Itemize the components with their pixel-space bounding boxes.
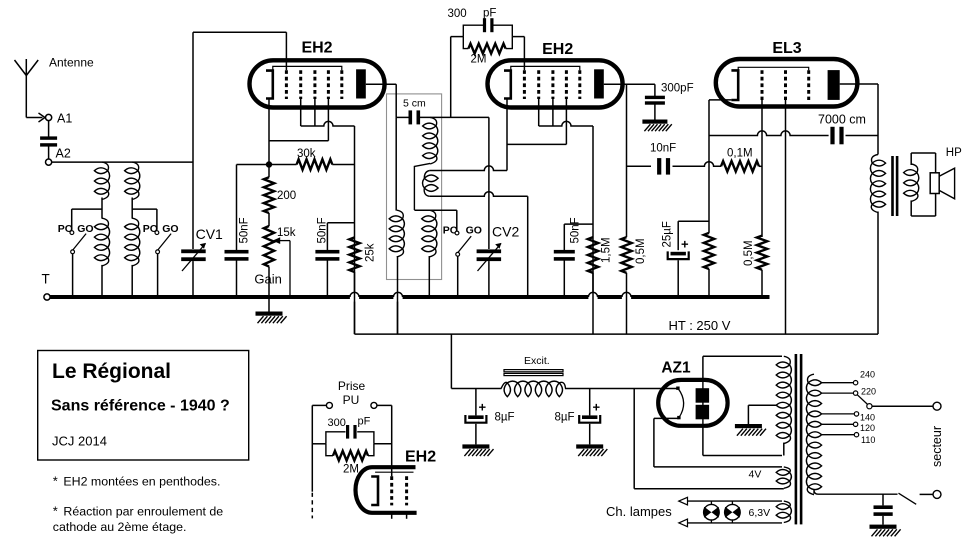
- svg-text:7000 cm: 7000 cm: [818, 112, 866, 126]
- svg-text:CV1: CV1: [196, 226, 223, 242]
- secteur terminal bottom: [933, 490, 941, 498]
- svg-text:EH2 montées en penthodes.: EH2 montées en penthodes.: [63, 475, 220, 489]
- svg-text:120: 120: [860, 423, 875, 433]
- dial lamp 1: [704, 501, 720, 523]
- label 1,5M: [601, 237, 613, 263]
- svg-text:Le Régional: Le Régional: [52, 360, 171, 383]
- capacitor 8uF no1: [465, 389, 486, 445]
- label 25k: [365, 243, 377, 262]
- PU RC right stub: [374, 443, 392, 445]
- 15k wiper arrow: [273, 237, 290, 297]
- svg-text:EH2: EH2: [405, 449, 436, 466]
- chassis ground on bus: [256, 299, 287, 323]
- svg-text:110: 110: [861, 435, 875, 445]
- AZ1 anode link: [702, 380, 704, 426]
- svg-text:50nF: 50nF: [317, 217, 329, 243]
- svg-text:8µF: 8µF: [555, 412, 575, 424]
- field coil Excit.: [501, 381, 565, 397]
- output transformer primary: [870, 155, 885, 213]
- wire grid1 top lead EH2 no1: [285, 32, 287, 70]
- secondary circuit to speaker: [911, 153, 935, 216]
- EH2 no2 grid 2: [537, 70, 540, 99]
- EH2 no2 grid 3: [551, 70, 554, 99]
- terminal T: [44, 294, 50, 300]
- note 2: [53, 504, 224, 519]
- rail drop to filter: [450, 334, 452, 388]
- svg-text:25µF: 25µF: [662, 221, 674, 247]
- svg-text:300pF: 300pF: [661, 83, 694, 95]
- svg-text:Sans référence - 1940 ?: Sans référence - 1940 ?: [51, 398, 230, 415]
- switch3 drop wire: [456, 210, 458, 230]
- label 2M (PU): [343, 464, 359, 476]
- svg-text:6,3V: 6,3V: [749, 507, 771, 519]
- wire coil1-to-coil4 and PO/GO3 tap: [414, 209, 456, 211]
- EL3 grid2 lead to HT rail: [785, 100, 787, 334]
- svg-text:+: +: [479, 400, 487, 415]
- svg-text:Excit.: Excit.: [524, 355, 550, 367]
- title box: [38, 351, 249, 461]
- wire top feedback line: [193, 32, 286, 249]
- label 0,5M no2: [743, 240, 755, 266]
- EH2 no1 screens wire with hop: [301, 121, 355, 126]
- wire selector to secteur terminal: [872, 405, 933, 407]
- power transformer 6,3V winding: [776, 501, 791, 522]
- label pF (top): [483, 8, 496, 20]
- capacitor 5cm: [396, 110, 489, 124]
- EH2 no2 cathode lead: [506, 99, 508, 171]
- EL3 cathode: [731, 70, 738, 100]
- dial lamp 2: [725, 501, 741, 523]
- primary tap 240: [822, 381, 858, 385]
- mains filter capacitor: [874, 494, 893, 524]
- label HT 250V: [669, 318, 731, 333]
- svg-text:A2: A2: [56, 147, 71, 161]
- mains switch wire: [920, 493, 933, 495]
- EH2 no1 grid 4: [327, 70, 330, 99]
- label 50nF no3: [570, 217, 582, 243]
- switch3 PO contact: [455, 231, 459, 235]
- PU coupling capacitor 300pF: [346, 425, 357, 439]
- EH2 no2 grid4 lead to cathode: [507, 99, 566, 144]
- PU left wire dashed: [311, 493, 313, 519]
- capacitor 50nF no1: [225, 165, 249, 298]
- bus hop at 1,5M line: [588, 292, 597, 297]
- svg-text:15k: 15k: [277, 227, 296, 239]
- EH2 no1 internal g5 tie: [273, 66, 342, 70]
- reaction line from 25k below bus: [354, 302, 356, 335]
- resistor 1,5M: [588, 237, 598, 273]
- label AZ1: [661, 360, 691, 377]
- PU terminal left: [326, 402, 332, 408]
- label 8uF no2: [555, 412, 575, 424]
- label 25uF: [662, 221, 674, 247]
- EH2 no1 grid 2: [299, 70, 302, 99]
- svg-text:Antenne: Antenne: [49, 56, 94, 70]
- capacitor 300pF feedback: [483, 18, 494, 32]
- cathode node wire: [237, 164, 297, 166]
- label CV2: [492, 224, 519, 240]
- wire L1 to bus: [101, 265, 103, 297]
- switch1 PO contact: [70, 231, 74, 235]
- label pF (PU): [358, 416, 371, 428]
- label 0,1M: [727, 148, 753, 160]
- svg-text:GO: GO: [77, 223, 93, 235]
- label EH2 no2: [542, 41, 573, 58]
- PU RC loop frame: [326, 432, 374, 456]
- power transformer core: [795, 354, 803, 524]
- resistor 200 cathode: [264, 165, 274, 227]
- power transformer HV winding: [776, 356, 791, 455]
- EH2 no3 internal line: [375, 471, 413, 473]
- resistor 25k: [349, 237, 359, 272]
- HV center tap to ground: [748, 405, 776, 424]
- coil2 bottom lead: [430, 192, 528, 297]
- label 30k: [297, 148, 316, 160]
- series antenna capacitor: [40, 121, 57, 159]
- EL3 cathode exit lead: [709, 100, 731, 136]
- svg-text:50nF: 50nF: [239, 217, 251, 243]
- EH2 no2 cathode: [504, 71, 511, 99]
- resistor 0,5M no1: [621, 237, 631, 273]
- svg-text:*: *: [53, 504, 58, 519]
- EH2 no1 anode wire: [366, 83, 396, 85]
- speaker HP: [930, 168, 954, 199]
- bus hop at reaction coil line: [393, 292, 402, 297]
- label plus 8uF no1: [479, 400, 487, 415]
- label CV1: [196, 226, 223, 242]
- mains switch blade: [899, 493, 917, 504]
- coupling transformer shield box: [387, 94, 442, 280]
- svg-text:1,5M: 1,5M: [601, 237, 613, 263]
- svg-text:0,1M: 0,1M: [727, 148, 753, 160]
- output transformer core: [891, 156, 898, 216]
- label Excit.: [524, 355, 550, 367]
- secteur terminal top: [933, 402, 941, 410]
- box coil top exit jog: [414, 163, 430, 210]
- resistor 2M feedback: [468, 44, 505, 54]
- PU RC left stub: [312, 443, 326, 445]
- label 0,5M no1: [635, 238, 647, 264]
- bus hop at 0,5M line: [622, 292, 631, 297]
- svg-text:Gain: Gain: [254, 272, 281, 287]
- EH2 no1 grid 3: [313, 70, 316, 99]
- RC loop 300pF/2M frame: [463, 25, 512, 48]
- EL3 cathode bias line: [708, 136, 710, 233]
- label PU: [343, 393, 360, 407]
- wire anode RC left leg: [451, 37, 464, 118]
- label Prise: [338, 379, 366, 393]
- PU terminal right: [371, 402, 377, 408]
- label 6,3V: [749, 507, 771, 519]
- wire 50nF no2 to screen line: [327, 222, 354, 224]
- svg-text:T: T: [42, 272, 50, 287]
- variable capacitor CV2: [477, 243, 502, 271]
- label A2: [56, 147, 71, 161]
- screen/1,5M line x593: [592, 126, 594, 292]
- antenna coil L1 primary: [94, 162, 109, 199]
- svg-text:*: *: [53, 474, 58, 489]
- EH2 no1 cathode lead: [268, 99, 270, 165]
- label 300pF: [661, 83, 694, 95]
- svg-text:4V: 4V: [749, 469, 762, 481]
- capacitor 10nF: [627, 158, 671, 175]
- box coil bottom-right wire to bus: [428, 256, 430, 297]
- svg-text:GO: GO: [466, 225, 482, 237]
- svg-text:secteur: secteur: [930, 426, 944, 467]
- Excit core: [504, 370, 563, 376]
- svg-text:300: 300: [448, 8, 467, 20]
- arrowhead bottom: [679, 519, 688, 527]
- label 7000 cm: [818, 112, 866, 126]
- capacitor 50nF no3: [554, 224, 593, 297]
- wire 5cm line down to CV2: [488, 117, 490, 249]
- label plus 8uF no2: [593, 400, 601, 415]
- wire bias resistor to bus: [708, 269, 710, 297]
- terminal A1: [46, 114, 52, 120]
- voltage selector arm: [857, 395, 868, 405]
- svg-text:2M: 2M: [471, 54, 487, 66]
- antenna coil L1 wire to tap: [101, 198, 103, 219]
- label EH2 no1: [301, 40, 332, 57]
- subtitle Sans reference: [51, 398, 230, 415]
- svg-text:140: 140: [860, 413, 875, 423]
- EL3 anode: [828, 70, 840, 100]
- label 200: [277, 190, 296, 202]
- primary tap 220: [822, 391, 858, 395]
- EH2 no1 cathode: [266, 71, 273, 99]
- wire L2 to bus: [131, 265, 133, 297]
- ground below 300pF: [642, 120, 671, 132]
- label T: [42, 272, 50, 287]
- PU left wire: [312, 405, 326, 491]
- ground 8uF no2: [576, 444, 607, 456]
- wire 0,5M no1 to HT rail: [626, 273, 628, 334]
- author JCJ 2014: [52, 434, 107, 449]
- variable capacitor CV1: [181, 243, 206, 271]
- tube EH2 no2 envelope: [488, 60, 623, 107]
- label 8uF no1: [495, 412, 515, 424]
- switch3 pole: [456, 252, 460, 256]
- power transformer primary: [806, 374, 821, 495]
- svg-text:5 cm: 5 cm: [403, 98, 426, 110]
- switch1 pole: [71, 250, 75, 254]
- ground 8uF no1: [462, 444, 493, 456]
- svg-text:PU: PU: [343, 393, 360, 407]
- switch2 pole: [156, 250, 160, 254]
- label Gain: [254, 272, 281, 287]
- wire 10nF to 0,1M: [673, 162, 722, 167]
- anode drop wire into box: [395, 84, 397, 117]
- label 240: [860, 369, 875, 379]
- arrow into A1: [39, 113, 46, 122]
- EH2 no3 grid 1: [390, 476, 393, 505]
- potentiometer 15k Gain: [264, 226, 274, 297]
- switch2 PO contact: [155, 231, 159, 235]
- label Ch. lampes: [606, 504, 672, 519]
- capacitor 25uF: [668, 221, 709, 297]
- svg-text:10nF: 10nF: [650, 143, 676, 155]
- box coil bottom-right (grid coil): [422, 210, 437, 257]
- svg-text:300: 300: [328, 417, 346, 429]
- EH2 no1 grid 5: [340, 70, 343, 99]
- svg-text:AZ1: AZ1: [661, 360, 691, 377]
- resistor 0,1M: [721, 161, 759, 171]
- title Le Regional: [52, 360, 171, 383]
- capacitor 8uF no2: [579, 389, 600, 445]
- AZ1 filament bottom lead: [654, 418, 782, 467]
- tube EL3 envelope: [716, 59, 858, 107]
- svg-text:EH2: EH2: [301, 40, 332, 57]
- switch1 wire to bus: [72, 254, 74, 297]
- svg-text:0,5M: 0,5M: [635, 238, 647, 264]
- antenna coil L2 secondary: [125, 218, 140, 266]
- AZ1 filament return line: [633, 389, 635, 489]
- svg-text:Prise: Prise: [338, 379, 366, 393]
- svg-text:pF: pF: [358, 416, 371, 428]
- ground mains capacitor: [870, 525, 901, 537]
- label 4V: [749, 469, 762, 481]
- antenna coil L2 primary: [125, 162, 140, 199]
- resistor 30k: [297, 159, 333, 169]
- tap wire L1 to PO/GO switch 1: [72, 209, 102, 230]
- label 300 (top): [448, 8, 467, 20]
- label GO switch3: [466, 225, 482, 237]
- svg-text:2M: 2M: [343, 464, 359, 476]
- EL3 internal g3 tie: [738, 67, 809, 70]
- svg-text:pF: pF: [483, 8, 496, 20]
- label 50nF no2: [317, 217, 329, 243]
- svg-text:50nF: 50nF: [570, 217, 582, 243]
- label EH2 no3: [405, 449, 436, 466]
- tap wire L2 to PO/GO switch 2: [132, 209, 157, 230]
- antenna coil L2 wire to tap: [131, 198, 133, 219]
- box coil bottom-left wire to HT rail: [397, 256, 399, 334]
- primary tap 110: [822, 433, 859, 437]
- svg-text:cathode au 2ème étage.: cathode au 2ème étage.: [53, 520, 187, 534]
- switch3 wire to bus: [457, 256, 459, 297]
- switch1 blade: [73, 234, 86, 250]
- EL3 grid 3: [807, 70, 810, 100]
- reaction line from coil below bus: [397, 302, 399, 335]
- label 2M (top): [471, 54, 487, 66]
- primary bottom lead: [814, 490, 898, 494]
- bus hop at 25k line: [350, 292, 359, 297]
- EH2 no2 screen leads: [539, 99, 553, 126]
- lamp line top: [687, 500, 782, 502]
- voltage selector pivot: [867, 404, 872, 409]
- svg-text:0,5M: 0,5M: [743, 240, 755, 266]
- svg-text:200: 200: [277, 190, 296, 202]
- svg-text:JCJ 2014: JCJ 2014: [52, 434, 107, 449]
- EL3 anode wire: [840, 84, 878, 155]
- EH2 no3 cathode: [371, 477, 378, 506]
- svg-text:HP: HP: [946, 147, 962, 159]
- label GO switch1: [77, 223, 93, 235]
- middle coupling coil: [423, 171, 439, 197]
- label secteur: [930, 426, 944, 467]
- label 140: [860, 413, 875, 423]
- svg-text:EH2: EH2: [542, 41, 573, 58]
- resistor 0,5M grid leak: [757, 236, 767, 297]
- PU right wire: [377, 405, 392, 476]
- wire 7000cm to anode line: [846, 135, 879, 137]
- capacitor 7000 cm: [830, 127, 843, 145]
- label 120: [860, 423, 875, 433]
- label 300 (PU): [328, 417, 346, 429]
- label 25uF plus: [681, 237, 689, 252]
- svg-text:A1: A1: [57, 112, 72, 126]
- wire RC right leg to grid EH2 no2: [512, 37, 524, 71]
- svg-text:Réaction par enroulement de: Réaction par enroulement de: [63, 505, 223, 519]
- label 220: [861, 387, 876, 397]
- EH2 no2 grid 1: [523, 70, 526, 99]
- svg-text:Ch. lampes: Ch. lampes: [606, 504, 672, 519]
- switch2 wire to bus: [157, 254, 159, 297]
- filter line left: [451, 388, 501, 390]
- antenna symbol: [15, 59, 43, 118]
- AZ1 anode bottom lead: [703, 426, 782, 456]
- filter line right: [565, 388, 678, 390]
- EH2 no1 anode: [356, 69, 366, 98]
- lamp line bottom: [687, 522, 782, 524]
- label GO switch2: [162, 223, 178, 235]
- coil2 top lead to EH2 no2 cathode: [430, 166, 507, 171]
- AZ1 anode top lead: [703, 356, 782, 380]
- EH2 no2 anode: [594, 69, 604, 98]
- box coil top (reaction): [423, 117, 438, 163]
- switch2 blade: [158, 234, 171, 250]
- svg-text:30k: 30k: [297, 148, 316, 160]
- svg-text:GO: GO: [162, 223, 178, 235]
- arrowhead top: [679, 497, 688, 505]
- label 50nF no1: [239, 217, 251, 243]
- label HP: [946, 147, 962, 159]
- wire 1,5M to HT rail: [592, 273, 594, 334]
- label EL3: [772, 40, 801, 57]
- EH2 no1 grid 1: [285, 70, 288, 99]
- 4V winding bottom lead: [634, 488, 784, 490]
- AZ1 anode 2: [696, 405, 710, 420]
- AZ1 anode 1: [696, 388, 710, 403]
- svg-text:CV2: CV2: [492, 224, 519, 240]
- CV2 wire to bus: [488, 261, 490, 297]
- junction dot cathode node: [266, 161, 272, 167]
- label PO switch3: [443, 225, 458, 237]
- EH2 no2 screens wire with hop: [539, 121, 593, 126]
- svg-text:EL3: EL3: [772, 40, 801, 57]
- EH2 no2 grid 5: [578, 70, 581, 99]
- label 110: [861, 435, 875, 445]
- EL3 grid 2: [784, 70, 787, 100]
- label PO switch1: [58, 223, 73, 235]
- svg-text:+: +: [681, 237, 689, 252]
- wire A2 to CV1 line: [52, 161, 193, 163]
- wire 0,1M to EL3 grid lead: [759, 165, 762, 167]
- label 10nF: [650, 143, 676, 155]
- capacitor 50nF no2: [315, 223, 339, 297]
- svg-text:HT : 250 V: HT : 250 V: [669, 318, 731, 333]
- screen feed line x354: [354, 126, 356, 292]
- svg-text:240: 240: [860, 369, 875, 379]
- tube AZ1 envelope: [658, 380, 727, 426]
- label Antenne: [49, 56, 94, 70]
- AZ1 filament: [676, 387, 683, 420]
- wire 25k to HT rail: [354, 272, 356, 334]
- EH2 no1 screen leads: [301, 99, 315, 126]
- output primary wire to HT rail: [877, 212, 879, 335]
- capacitor 7000cm line: [709, 131, 829, 136]
- note 3: [53, 520, 187, 534]
